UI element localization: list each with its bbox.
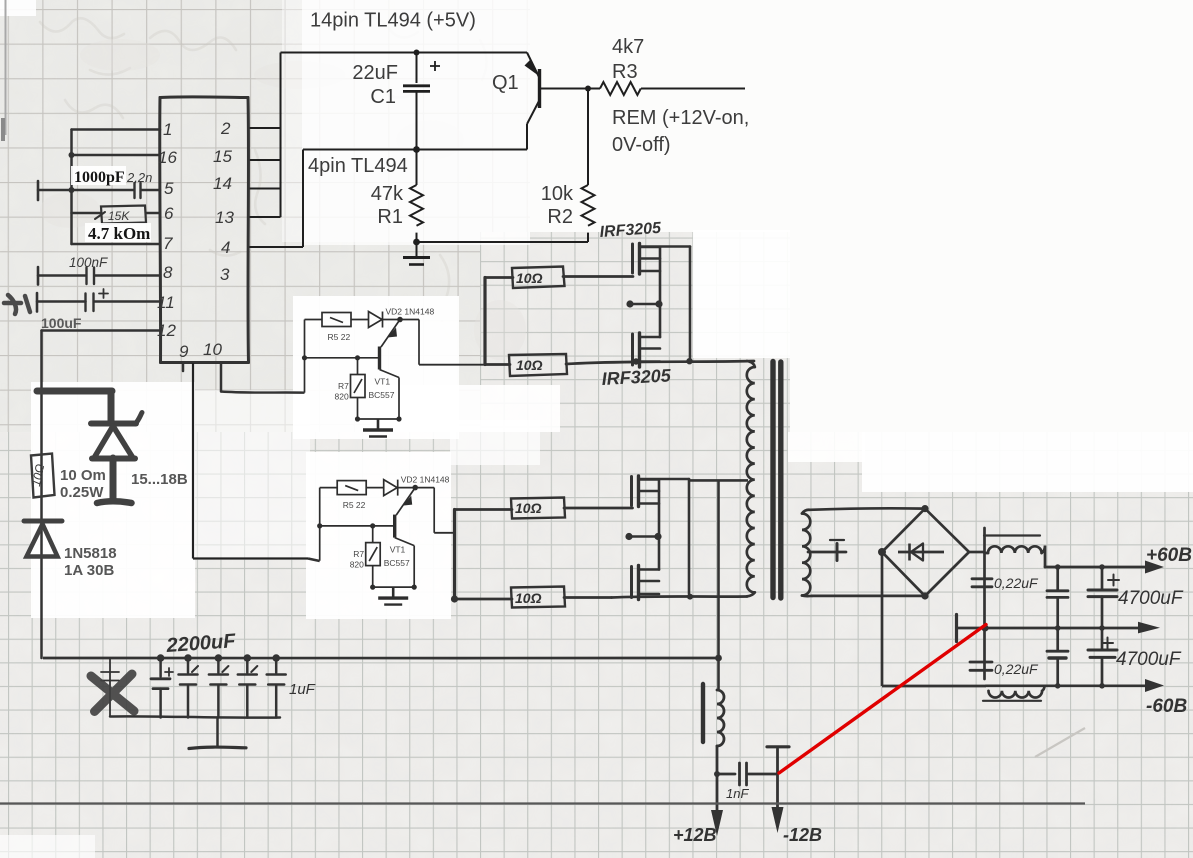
svg-text:-60B: -60B xyxy=(1146,696,1187,717)
svg-text:IRF3205: IRF3205 xyxy=(601,365,672,389)
svg-text:5: 5 xyxy=(164,179,174,198)
svg-text:6: 6 xyxy=(164,204,174,223)
svg-text:4700uF: 4700uF xyxy=(1118,588,1184,609)
svg-text:10Ω: 10Ω xyxy=(516,270,543,286)
svg-text:3: 3 xyxy=(220,265,230,284)
svg-text:REM (+12V-on,: REM (+12V-on, xyxy=(612,107,749,129)
svg-text:10 Om: 10 Om xyxy=(60,467,106,484)
svg-text:R7: R7 xyxy=(338,381,349,391)
svg-text:14: 14 xyxy=(213,174,232,193)
svg-text:4k7: 4k7 xyxy=(612,36,644,58)
svg-text:R1: R1 xyxy=(377,206,403,228)
svg-text:R5 22: R5 22 xyxy=(328,332,351,342)
svg-text:7: 7 xyxy=(163,234,173,253)
svg-text:2,2n: 2,2n xyxy=(126,170,152,185)
svg-text:1nF: 1nF xyxy=(726,786,749,801)
svg-text:R2: R2 xyxy=(547,206,573,228)
svg-text:13: 13 xyxy=(215,208,234,227)
svg-text:14pin TL494 (+5V): 14pin TL494 (+5V) xyxy=(310,10,476,32)
svg-text:1000pF: 1000pF xyxy=(74,169,125,186)
svg-text:15: 15 xyxy=(213,147,232,166)
svg-text:BC557: BC557 xyxy=(369,390,395,400)
svg-text:R3: R3 xyxy=(612,61,638,83)
svg-text:100uF: 100uF xyxy=(41,315,82,331)
svg-text:0.25W: 0.25W xyxy=(60,484,104,501)
svg-text:1uF: 1uF xyxy=(289,681,316,698)
svg-text:-12B: -12B xyxy=(783,825,822,845)
svg-text:VT1: VT1 xyxy=(375,377,391,387)
svg-text:22uF: 22uF xyxy=(352,62,398,84)
svg-text:16: 16 xyxy=(158,148,177,167)
svg-text:4700uF: 4700uF xyxy=(1116,649,1182,670)
svg-text:15K: 15K xyxy=(108,209,130,223)
svg-text:0,22uF: 0,22uF xyxy=(994,575,1039,591)
svg-text:10Ω: 10Ω xyxy=(515,500,542,516)
svg-text:0V-off): 0V-off) xyxy=(612,134,671,156)
svg-text:1A 30B: 1A 30B xyxy=(64,562,114,579)
svg-text:10: 10 xyxy=(203,340,222,359)
svg-text:820: 820 xyxy=(335,392,349,402)
svg-text:+60B: +60B xyxy=(1146,545,1192,566)
svg-text:2: 2 xyxy=(220,119,231,138)
svg-text:10Ω: 10Ω xyxy=(516,357,543,373)
svg-text:C1: C1 xyxy=(370,86,396,108)
svg-text:10k: 10k xyxy=(541,183,574,205)
svg-text:100nF: 100nF xyxy=(69,255,108,270)
svg-text:1N5818: 1N5818 xyxy=(64,545,117,562)
svg-text:15...18B: 15...18B xyxy=(131,471,188,488)
svg-text:8: 8 xyxy=(163,263,173,282)
svg-text:VD2 1N4148: VD2 1N4148 xyxy=(386,307,435,317)
svg-text:+12B: +12B xyxy=(673,825,717,845)
svg-text:4.7 kOm: 4.7 kOm xyxy=(88,224,150,243)
svg-text:4pin TL494: 4pin TL494 xyxy=(308,155,408,177)
svg-text:47k: 47k xyxy=(371,183,404,205)
svg-text:9: 9 xyxy=(179,342,189,361)
svg-text:1: 1 xyxy=(163,120,172,139)
svg-text:Q1: Q1 xyxy=(492,72,519,94)
svg-text:0,22uF: 0,22uF xyxy=(994,661,1039,677)
svg-text:4: 4 xyxy=(221,238,230,257)
svg-text:10Ω: 10Ω xyxy=(515,590,542,606)
